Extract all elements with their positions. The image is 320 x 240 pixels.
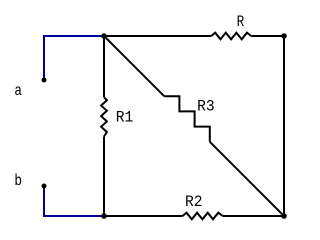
wire: blue lead from terminal b to bottom-left node [44,186,104,216]
svg-text:b: b [14,172,22,190]
wire: left vertical from top-left node to resistor R1 [103,36,105,97]
wire: blue lead from terminal a to top-left node [44,36,104,80]
node: bottom-left junction [101,213,107,219]
node: top-left junction [101,33,107,39]
wire: bottom segment from node to resistor R2 [104,215,183,217]
node: bottom-right junction [281,213,287,219]
node: terminal a dot [42,78,47,83]
resistor R2 [183,213,223,220]
resistor R [211,33,251,40]
wire: top segment from node to resistor R [104,35,211,37]
wire: left vertical from resistor R1 to bottom-left node [103,137,105,217]
svg-text:R1: R1 [116,109,134,127]
resistor R3 [164,96,210,142]
wire: bottom segment from resistor R2 to bottom-right node [223,215,284,217]
node: top-right junction [281,33,287,39]
svg-text:R: R [237,13,245,31]
svg-text:R2: R2 [185,193,203,211]
wire: upper diagonal from top-left node to resistor R3 [104,36,164,96]
wire: right vertical segment [283,36,285,216]
resistor R1 [101,97,107,136]
wire: top segment from resistor R to top-right node [251,35,284,37]
wire: lower diagonal from resistor R3 to bottom-right node [210,142,284,216]
svg-text:R3: R3 [197,98,215,116]
node: terminal b dot [42,184,47,189]
svg-text:a: a [14,82,22,100]
